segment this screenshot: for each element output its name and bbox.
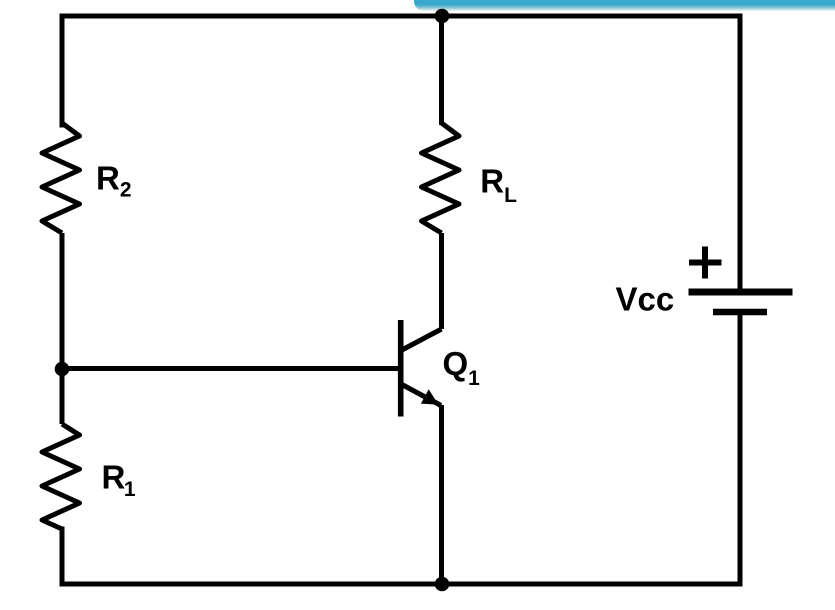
svg-text:R1: R1 [102, 459, 136, 501]
resistor R1 [42, 424, 80, 529]
resistor R2 [42, 123, 80, 233]
wire base (node A to Q1) [62, 366, 398, 371]
node A (base divider junction) [55, 362, 70, 377]
battery Vcc plus sign [689, 260, 722, 266]
wire top (node VCC rail) [62, 14, 740, 19]
svg-text:RL: RL [480, 163, 517, 207]
transistor Q1 collector stroke [401, 329, 442, 351]
node top junction [435, 9, 450, 24]
transistor Q1 emitter stroke [401, 384, 441, 406]
battery Vcc positive plate [689, 289, 793, 296]
svg-text:Q1: Q1 [443, 345, 481, 390]
battery Vcc negative plate [713, 309, 767, 316]
wire left middle (R2 to node A) [60, 233, 65, 369]
wire left lower (node A to R1) [60, 369, 65, 424]
wire right lower (battery to bottom rail) [738, 312, 743, 584]
teal highlight bar [414, 0, 835, 11]
svg-text:Vcc: Vcc [616, 281, 675, 318]
wire left bottom (R1 to bottom rail) [60, 529, 65, 584]
node bottom junction [435, 577, 450, 592]
resistor RL [422, 123, 460, 233]
wire collector (RL to Q1) [439, 233, 444, 329]
wire middle upper (top node to RL) [439, 16, 444, 125]
transistor Q1 emitter arrowhead [421, 389, 439, 405]
wire left upper (top corner to R2) [60, 16, 65, 125]
wire bottom (ground rail) [62, 582, 740, 587]
wire emitter (Q1 to bottom rail) [439, 405, 444, 584]
svg-text:R2: R2 [96, 160, 132, 202]
transistor Q1 base bar [398, 320, 404, 417]
wire right upper (top rail to battery) [738, 16, 743, 290]
